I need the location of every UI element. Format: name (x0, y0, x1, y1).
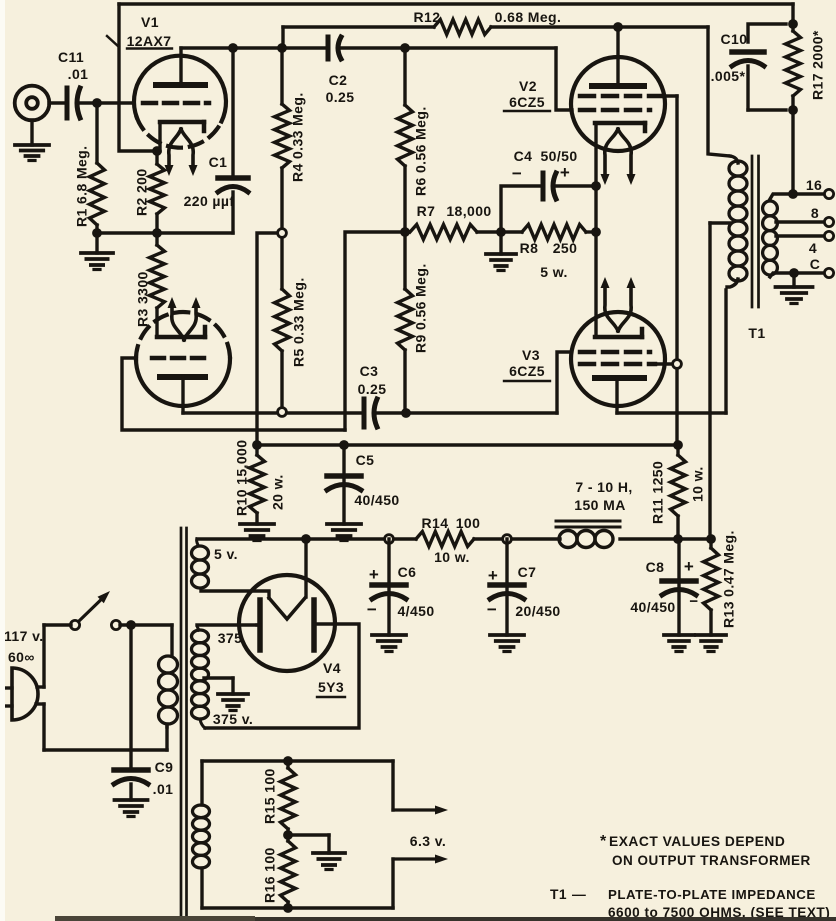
label 117v (4, 628, 44, 665)
svg-text:250: 250 (553, 240, 578, 256)
ring C7 junction (503, 535, 512, 544)
svg-text:C7: C7 (518, 564, 537, 580)
ring R5 bottom (278, 408, 287, 417)
label C1 (184, 154, 235, 209)
node C9 top (126, 620, 136, 630)
svg-text:16: 16 (806, 177, 822, 193)
label T1 (748, 325, 765, 341)
svg-text:117 v.: 117 v. (4, 628, 44, 644)
transformer PT HV winding (192, 630, 209, 719)
label R5 (291, 277, 307, 367)
svg-text:C8: C8 (646, 559, 665, 575)
svg-text:R15 100: R15 100 (262, 768, 278, 824)
node R2 bottom (152, 228, 162, 238)
svg-text:20 w.: 20 w. (270, 474, 286, 510)
ground C tap (776, 273, 813, 304)
svg-text:R10 15,000: R10 15,000 (234, 440, 250, 516)
capacitor C2 (328, 37, 341, 59)
node R13 top (706, 534, 716, 544)
svg-text:60∞: 60∞ (8, 649, 35, 665)
label C5 (354, 452, 399, 508)
svg-text:0.25: 0.25 (326, 89, 355, 105)
ground C9 (115, 800, 148, 817)
label 375 bottom (213, 711, 253, 727)
svg-text:R14: R14 (422, 515, 449, 531)
wire 8 tap (776, 217, 834, 226)
wire V2 grid lead (556, 48, 572, 110)
resistor R14 (416, 532, 474, 547)
resistor R3 (150, 233, 165, 337)
V3 control grid (580, 350, 650, 355)
scan edge bottom (55, 916, 836, 921)
svg-text:−: − (487, 600, 497, 619)
wire R12 line right (491, 25, 708, 28)
label R4 (290, 92, 306, 182)
V4 filament (269, 598, 305, 619)
label C11 (58, 49, 88, 82)
capacitor C5 (327, 445, 361, 524)
svg-text:+: + (560, 163, 570, 182)
wire 4 tap (776, 231, 834, 240)
label R10 (234, 440, 286, 516)
svg-text:C6: C6 (398, 564, 417, 580)
ground C5 (327, 524, 361, 541)
wire to T1 primary top (708, 27, 730, 156)
svg-text:8: 8 (811, 205, 819, 221)
resistor R12 (434, 20, 491, 35)
ring R4 R5 junction (278, 229, 287, 238)
resistor R11 (671, 445, 686, 538)
svg-text:5 w.: 5 w. (540, 264, 568, 280)
ring V3 screen junction (673, 360, 682, 369)
svg-text:150 MA: 150 MA (574, 497, 625, 513)
ground C8 (664, 635, 694, 652)
node screens B+ junction (673, 440, 683, 450)
V1 heater (165, 129, 198, 176)
svg-text:V2: V2 (519, 78, 537, 94)
wire HV center tap (204, 676, 233, 679)
wire V1 plate node (181, 46, 325, 49)
ground C6 (372, 635, 406, 652)
ring C6 junction (385, 535, 394, 544)
svg-text:C5: C5 (356, 452, 375, 468)
wire switch to transformer (120, 623, 172, 626)
V1b grid (152, 356, 206, 361)
label V1 (107, 14, 172, 49)
wire bias to V1b grid (345, 232, 405, 430)
capacitor C8 (662, 539, 696, 635)
svg-text:7 - 10 H,: 7 - 10 H, (575, 479, 632, 495)
svg-text:C10: C10 (721, 31, 748, 47)
svg-text:40/450: 40/450 (354, 492, 399, 508)
label R2 (134, 168, 150, 216)
ground HV center tap (218, 678, 248, 711)
label C8 (630, 557, 698, 615)
svg-text:220 µµf: 220 µµf (184, 193, 235, 209)
label C4 (512, 148, 578, 183)
resistor R6 (398, 48, 413, 232)
transformer PT 5v winding (192, 539, 209, 588)
svg-text:R6 0.56 Meg.: R6 0.56 Meg. (413, 106, 429, 196)
node V4 filament tap (301, 534, 311, 544)
capacitor C11 (67, 88, 80, 118)
svg-text:+: + (684, 557, 694, 576)
label R8 (520, 240, 578, 280)
label C7 (487, 564, 561, 619)
capacitor C7 (490, 539, 524, 635)
ground hum balance (313, 835, 345, 870)
svg-text:R5 0.33 Meg.: R5 0.33 Meg. (291, 277, 307, 367)
V1 grid (143, 101, 209, 106)
transformer PT filament winding (193, 761, 210, 908)
svg-text:V3: V3 (522, 347, 540, 363)
svg-text:R12: R12 (414, 9, 441, 25)
transformer T1 core (752, 156, 759, 307)
ground jack (15, 120, 49, 161)
svg-text:5 v.: 5 v. (214, 546, 238, 562)
label 375 top (218, 630, 243, 646)
resistor R4 (275, 48, 290, 229)
label R13 (721, 530, 737, 628)
V4 plate right (311, 600, 317, 650)
node C tap (789, 268, 799, 278)
label R9 (413, 263, 429, 353)
svg-text:C2: C2 (329, 72, 348, 88)
svg-text:100: 100 (456, 515, 481, 531)
node R15 top (283, 756, 293, 766)
svg-text:R13 0.47 Meg.: R13 0.47 Meg. (721, 530, 737, 628)
capacitor C6 (372, 539, 406, 635)
svg-text:6.3 v.: 6.3 v. (410, 833, 446, 849)
tube V4 envelope (239, 575, 335, 671)
ground R13 (696, 635, 726, 652)
transformer PT core (181, 528, 187, 916)
wire jack to C11 (49, 101, 64, 104)
wire filament to rail (304, 539, 307, 597)
node R17 bottom (788, 105, 798, 115)
wire 5v to filament (201, 591, 269, 598)
V2 control grid (580, 108, 650, 113)
svg-text:R17 2000*: R17 2000* (810, 30, 826, 100)
svg-text:—: — (572, 887, 586, 902)
svg-text:R8: R8 (520, 240, 539, 256)
transformer T1 secondary (763, 201, 778, 275)
capacitor C3 (364, 399, 377, 427)
ground R1 (81, 233, 113, 270)
node 16 tap (788, 189, 798, 199)
capacitor C10 (732, 24, 786, 110)
wire ground bus y233 (97, 231, 233, 234)
wire R17 top corner (791, 4, 794, 31)
svg-text:C: C (810, 256, 821, 272)
V1 plate (156, 48, 205, 85)
label R14 (422, 515, 481, 565)
label R6 (413, 106, 429, 196)
label C10 (711, 31, 748, 84)
V3 heater (601, 277, 636, 331)
tube V3 envelope (571, 312, 665, 406)
svg-text:18,000: 18,000 (446, 203, 491, 219)
node R6 top (400, 43, 410, 53)
node R1 bottom (92, 228, 102, 238)
resistor R1 (90, 103, 105, 233)
label C (810, 256, 821, 272)
svg-text:C11: C11 (58, 49, 84, 65)
label 16 (806, 177, 822, 193)
wire hum tap to ground (288, 833, 329, 836)
svg-text:20/450: 20/450 (515, 603, 560, 619)
V3 screen grid (580, 362, 673, 367)
wire HV top to plate (197, 625, 257, 630)
label C9 (153, 759, 174, 797)
wire R14 to choke (474, 537, 560, 540)
svg-text:C1: C1 (209, 154, 228, 170)
V2 cathode (595, 123, 645, 131)
label R7 (417, 203, 492, 219)
V3 cathode (595, 329, 642, 337)
label R15 (262, 768, 278, 824)
node hum balance tap (283, 830, 293, 840)
label 4 (809, 240, 817, 256)
wire rectifier rail (197, 537, 416, 540)
svg-text:.01: .01 (153, 781, 174, 797)
node input junction (92, 98, 102, 108)
label 8 (811, 205, 819, 221)
scan edge left (0, 0, 5, 921)
wire C3 to V3 grid (378, 352, 571, 413)
svg-text:+: + (369, 565, 379, 584)
resistor R10 (250, 445, 265, 524)
svg-text:R16 100: R16 100 (262, 847, 278, 903)
switch S1 (70, 591, 120, 630)
V4 plate left (257, 600, 260, 650)
ground R10 (240, 524, 274, 541)
label R11 (650, 461, 706, 524)
label C3 (358, 363, 387, 397)
ground C7 (490, 635, 524, 652)
wire C2 to V2 grid (341, 46, 556, 49)
resistor R5 (275, 237, 290, 408)
label R17 (810, 30, 826, 100)
svg-text:375 v.: 375 v. (213, 711, 253, 727)
svg-text:40/450: 40/450 (630, 599, 675, 615)
node C10 top (788, 19, 798, 29)
wire R17 to 16 tap (791, 110, 794, 194)
svg-text:*: * (600, 833, 607, 850)
svg-text:−: − (367, 600, 377, 619)
V2 plate (592, 27, 644, 86)
svg-text:6CZ5: 6CZ5 (509, 363, 545, 379)
wire V1b grid lead (122, 358, 345, 430)
label C6 (367, 564, 435, 619)
wire C tap (770, 268, 834, 277)
label V4 (317, 660, 345, 697)
capacitor C1 (218, 48, 248, 233)
tube V1 envelope (134, 56, 226, 148)
wire C11 to grid V1 (81, 101, 134, 104)
label V3 (504, 347, 550, 381)
wire choke to B+ node (620, 537, 711, 540)
svg-text:4: 4 (809, 240, 817, 256)
wire V3 plate to T1 (617, 290, 726, 413)
label R3 (135, 271, 151, 327)
wire feedback top line (119, 2, 793, 5)
wire filament bottom (202, 906, 393, 909)
resistor R16 (281, 835, 296, 908)
label R1 (74, 146, 90, 227)
wire feedback to V1 cathode (119, 4, 157, 151)
wire AC bottom (44, 704, 167, 750)
svg-text:V1: V1 (141, 14, 159, 30)
svg-text:10 w.: 10 w. (434, 549, 470, 565)
node R9 bottom (401, 408, 411, 418)
resistor R15 (281, 761, 296, 835)
node R4 top (277, 43, 287, 53)
svg-text:C4: C4 (514, 148, 533, 164)
svg-text:R7: R7 (417, 203, 436, 219)
wire plate corner up (281, 27, 284, 48)
label V2 (504, 78, 550, 111)
wire 16 tap (770, 189, 834, 199)
svg-text:R3 3300: R3 3300 (135, 271, 151, 327)
V1b cathode (157, 327, 205, 337)
svg-text:4/450: 4/450 (397, 603, 434, 619)
wire filament top (202, 759, 393, 762)
svg-text:V4: V4 (323, 660, 341, 676)
svg-text:+: + (488, 566, 498, 585)
node C5 top (339, 440, 349, 450)
svg-text:ON OUTPUT TRANSFORMER: ON OUTPUT TRANSFORMER (612, 853, 811, 868)
V3 plate (595, 378, 644, 413)
label R12 (414, 9, 562, 25)
wire B+ feed to plate loads (257, 233, 278, 445)
node bias junction (400, 227, 410, 237)
ground R7 (486, 232, 516, 271)
svg-text:10 w.: 10 w. (690, 466, 706, 502)
wire V1b plate to C3 (183, 411, 361, 414)
wire B+ rail (257, 443, 678, 446)
resistor R2 (150, 151, 165, 233)
V2 heater (601, 129, 636, 185)
transformer T1 primary (710, 156, 747, 287)
note T1 impedance (550, 887, 830, 920)
svg-text:0.25: 0.25 (358, 381, 387, 397)
wire T1 center tap (708, 223, 711, 538)
V2 screen grid (580, 94, 677, 99)
svg-text:R11 1250: R11 1250 (650, 461, 666, 524)
transformer PT primary (159, 625, 178, 727)
node C4 right (591, 181, 601, 191)
svg-text:C9: C9 (155, 759, 174, 775)
label 5v (214, 546, 238, 562)
choke L1 (556, 521, 620, 548)
svg-text:PLATE-TO-PLATE IMPEDANCE: PLATE-TO-PLATE IMPEDANCE (608, 887, 816, 902)
svg-text:.01: .01 (68, 66, 89, 82)
node R16 bottom (283, 903, 293, 913)
svg-text:12AX7: 12AX7 (127, 33, 172, 49)
svg-text:C3: C3 (360, 363, 379, 379)
svg-text:−: − (512, 164, 522, 183)
V1b heater (168, 297, 201, 340)
tube V1b envelope (136, 312, 230, 406)
wire cathode bus V2 V3 (594, 123, 597, 337)
wire plug to switch (44, 625, 71, 687)
svg-text:R9 0.56 Meg.: R9 0.56 Meg. (413, 263, 429, 353)
node V1 cathode junction (152, 146, 162, 156)
svg-text:5Y3: 5Y3 (318, 679, 344, 695)
svg-text:T1: T1 (748, 325, 765, 341)
svg-text:6CZ5: 6CZ5 (509, 94, 545, 110)
capacitor C9 (114, 625, 148, 800)
resistor R13 (704, 539, 719, 635)
wire HV bottom to plate (200, 624, 359, 728)
node C1 top (228, 43, 238, 53)
wire R12 line left (283, 25, 434, 28)
label choke (574, 479, 632, 513)
node R8 right (591, 227, 601, 237)
AC plug (2, 668, 44, 720)
wire 6.3v top lead (393, 761, 448, 815)
node R7 right (496, 227, 506, 237)
note exact values (600, 833, 811, 868)
label 6.3v (410, 833, 446, 849)
label R16 (262, 847, 278, 903)
svg-text:0.68 Meg.: 0.68 Meg. (495, 9, 562, 25)
node R10 top (252, 440, 262, 450)
capacitor C4 (501, 173, 596, 232)
V1b plate (160, 377, 205, 413)
node C8 junction (673, 534, 683, 544)
svg-text:R2 200: R2 200 (134, 168, 150, 216)
svg-text:R4 0.33 Meg.: R4 0.33 Meg. (290, 92, 306, 182)
svg-text:R1 6.8 Meg.: R1 6.8 Meg. (74, 146, 90, 227)
resistor R8 (522, 225, 596, 240)
V1 cathode (160, 122, 204, 151)
wire 6.3v bottom lead (393, 855, 448, 909)
svg-text:T1: T1 (550, 887, 567, 902)
svg-text:50/50: 50/50 (540, 148, 577, 164)
label C2 (326, 72, 355, 105)
resistor R7 (410, 225, 522, 240)
input jack J1 (15, 86, 50, 121)
node V2 plate junction (613, 22, 623, 32)
resistor R9 (398, 232, 413, 413)
wire screens to B+ (675, 96, 678, 445)
svg-text:EXACT VALUES DEPEND: EXACT VALUES DEPEND (609, 834, 785, 849)
tube V2 envelope (571, 57, 665, 151)
svg-text:.005*: .005* (711, 68, 746, 84)
svg-text:−: − (689, 593, 698, 610)
resistor R17 (786, 31, 801, 110)
